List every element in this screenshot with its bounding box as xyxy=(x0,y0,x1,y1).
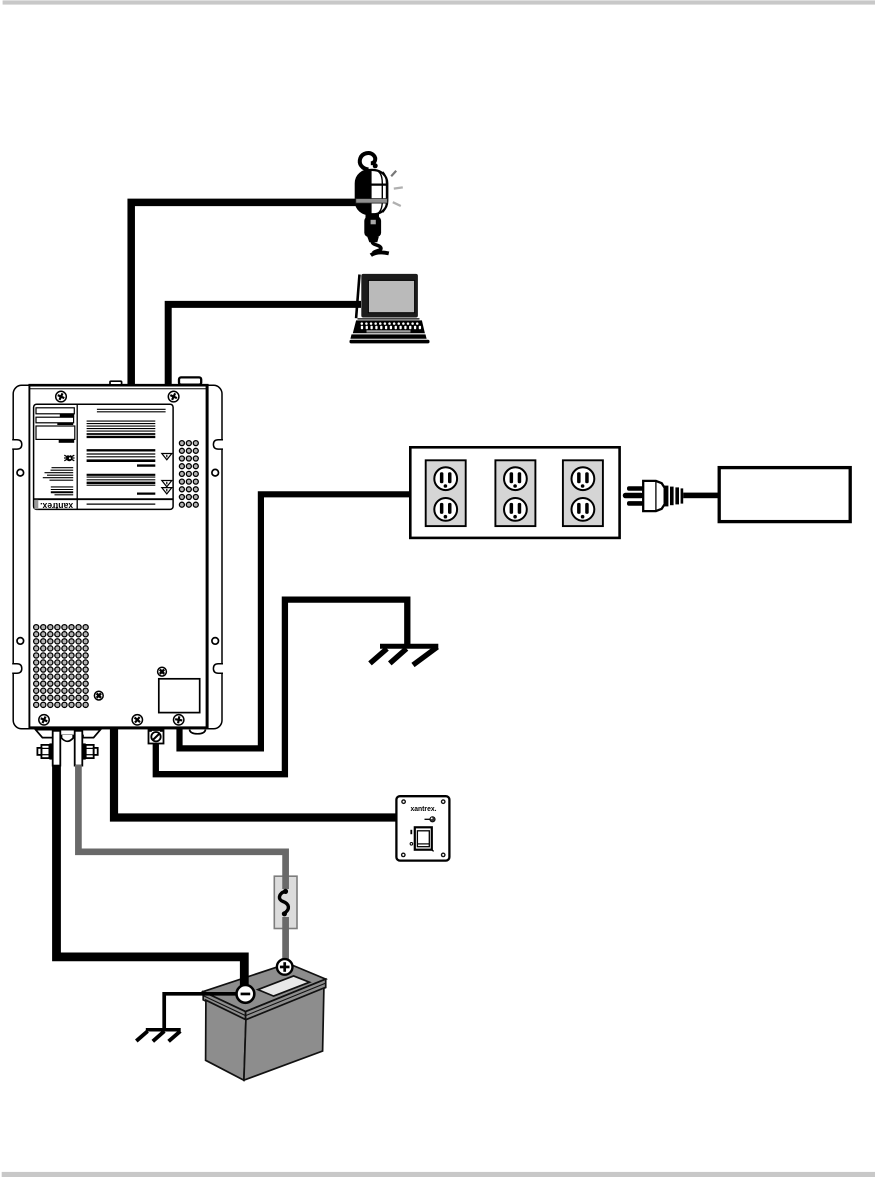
flange hole upper-left xyxy=(17,469,24,476)
outlet 2b xyxy=(504,498,527,521)
ground screw assembly xyxy=(149,729,164,743)
negative terminal nut xyxy=(37,743,53,759)
outlet 1b xyxy=(434,498,457,521)
outlet plate 3 xyxy=(563,460,603,526)
AC wiring access box xyxy=(159,679,200,713)
flange hole upper-right xyxy=(212,469,219,476)
large tab on top edge (AC knockout) xyxy=(179,377,201,384)
label certification mark xyxy=(64,453,75,461)
AC power strip xyxy=(410,447,619,538)
positive terminal post xyxy=(75,731,83,766)
positive battery terminal xyxy=(277,959,293,975)
remote on/off control panel xyxy=(396,796,449,860)
warning triangle 3 xyxy=(162,488,172,494)
svg-text:xantrex.: xantrex. xyxy=(411,806,437,813)
positive battery cable (gray) xyxy=(78,765,285,961)
outlet 1a xyxy=(434,467,457,490)
negative terminal post xyxy=(53,731,61,766)
label box 1 xyxy=(36,408,74,414)
battery ground wire xyxy=(164,994,237,1029)
battery label xyxy=(258,976,310,996)
screw top-right xyxy=(168,391,179,402)
AC plug xyxy=(623,481,720,511)
inline fuse body xyxy=(274,876,297,928)
screw top-left xyxy=(56,391,67,402)
outlet plate 1 xyxy=(426,460,466,526)
label box 2 xyxy=(36,417,74,423)
battery ground symbol xyxy=(136,1030,180,1042)
specification label panel xyxy=(34,404,174,509)
negative battery terminal xyxy=(237,985,255,1003)
flange notch upper-left xyxy=(12,440,22,449)
chassis ground symbol xyxy=(370,646,438,665)
cable bushing below chassis xyxy=(190,730,206,734)
warning triangle 2 xyxy=(162,481,172,487)
label box 3 xyxy=(36,426,75,439)
outlet 3a xyxy=(572,467,595,490)
label text lines left column xyxy=(52,467,74,469)
inverter mounting flange xyxy=(13,385,222,729)
flange notch lower-left xyxy=(12,664,22,673)
DC terminal bracket plate xyxy=(36,730,101,742)
flange hole lower-left xyxy=(17,638,24,645)
label brand tab xyxy=(34,500,38,509)
flange notch lower-right xyxy=(213,664,223,673)
top page rule xyxy=(3,0,875,4)
upper right vent grid xyxy=(179,441,198,508)
small tab on top edge xyxy=(110,381,122,385)
negative battery cable xyxy=(57,765,245,988)
outlet plate 2 xyxy=(495,460,535,526)
outlet 2a xyxy=(504,467,527,490)
laptop computer xyxy=(350,274,430,344)
screw near left vents xyxy=(94,691,103,700)
AC output wire to power strip xyxy=(180,494,411,748)
screw bottom-left xyxy=(39,715,49,725)
screw bottom-middle xyxy=(132,715,142,725)
label text lines right column xyxy=(97,408,166,410)
appliance box xyxy=(719,468,850,522)
positive terminal nut xyxy=(82,743,98,759)
bottom page rule xyxy=(2,1172,875,1177)
wire from inverter to work light xyxy=(131,202,359,386)
lower left vent grid xyxy=(34,625,89,708)
remote control wire xyxy=(114,728,399,818)
screw above AC access box xyxy=(158,667,167,676)
flange notch upper-right xyxy=(213,440,223,449)
outlet 3b xyxy=(572,498,595,521)
battery xyxy=(203,963,326,1080)
warning triangle 1 xyxy=(162,454,172,460)
work light (trouble light) xyxy=(356,153,403,255)
svg-text:xantrex.: xantrex. xyxy=(40,501,73,511)
inverter chassis body xyxy=(29,384,209,729)
flange hole lower-right xyxy=(212,638,219,645)
screw bottom-right xyxy=(174,715,184,725)
wire from inverter to laptop xyxy=(168,304,361,386)
chassis ground wire xyxy=(156,600,407,775)
fuse element xyxy=(277,889,295,917)
